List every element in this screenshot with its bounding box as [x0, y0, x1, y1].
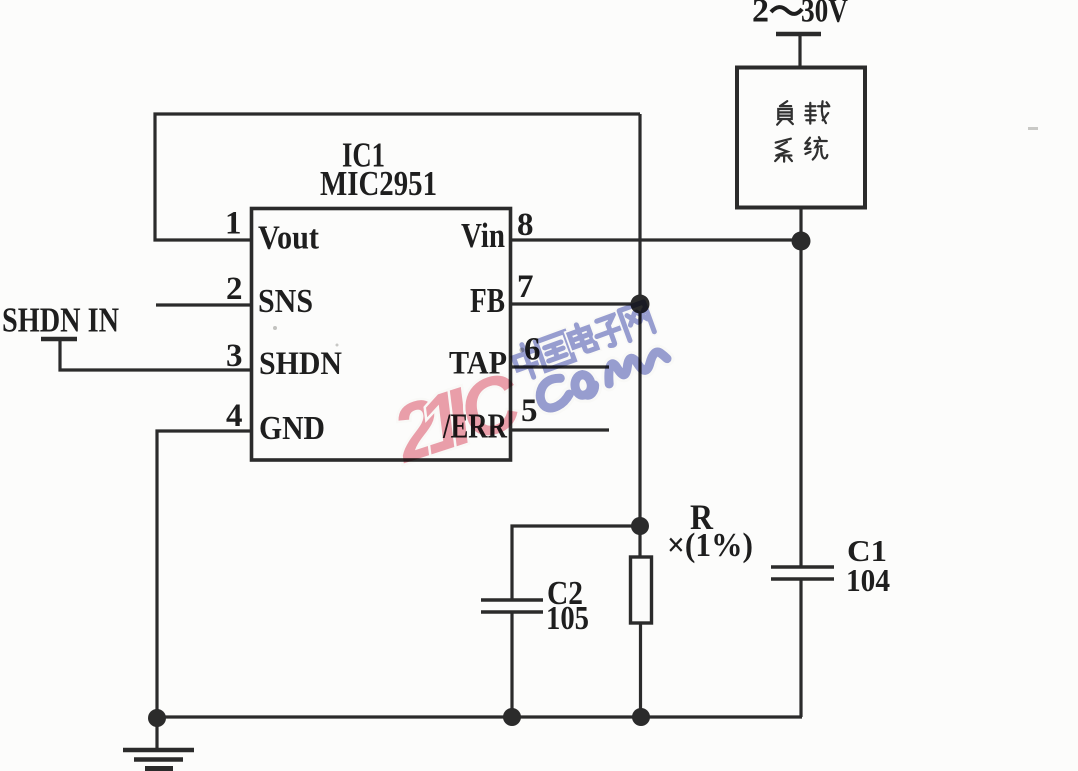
terminal T bar for SHDN IN — [41, 337, 77, 342]
IC1 body MIC2951 — [252, 209, 511, 461]
svg-text:Vout: Vout — [258, 220, 320, 257]
capacitor C2 plates — [481, 600, 543, 612]
stray scan speck 3 — [520, 348, 525, 353]
wire: GND pin4 down left rail — [157, 431, 252, 717]
watermark chinese 中国电子网 blue — [510, 301, 655, 382]
svg-text:GND: GND — [259, 410, 325, 447]
stray scan speck — [1028, 127, 1038, 130]
svg-text:2: 2 — [752, 0, 769, 30]
svg-text:Vin: Vin — [461, 216, 505, 255]
watermark com blue script — [535, 340, 669, 411]
svg-text:30V: 30V — [801, 0, 848, 30]
svg-text:1: 1 — [225, 206, 242, 242]
wire: feedback vertical column lower part below resistor — [639, 623, 642, 717]
wire: FB pin7 to feedback column — [511, 302, 640, 305]
wire: feedback vertical column upper part — [638, 114, 641, 557]
svg-text:3: 3 — [226, 338, 243, 374]
watermark 21IC pink — [381, 355, 532, 480]
svg-text:4: 4 — [226, 398, 243, 434]
svg-text:105: 105 — [546, 600, 589, 637]
stray scan speck 2 — [273, 326, 277, 330]
wire: Vin pin8 to supply column — [511, 238, 801, 241]
watermark char 网 — [619, 302, 654, 341]
terminal bar for 2~30V supply — [776, 32, 821, 37]
junction node at C2 branch / R top — [631, 517, 649, 535]
char 系 — [775, 139, 792, 162]
load box label 负载 (hand drawn glyphs) — [775, 101, 829, 162]
ground symbol — [123, 717, 194, 769]
char 负 — [777, 101, 793, 125]
wire: right column below C1 to bottom rail — [799, 579, 802, 717]
wires and components — [60, 34, 802, 717]
wire: /ERR pin5 stub — [511, 428, 609, 431]
junction node left rail / ground symbol — [148, 709, 166, 727]
watermark char 国 — [536, 332, 575, 371]
char 统 — [805, 137, 827, 159]
junction node at Vin / load box — [792, 232, 811, 251]
svg-text:SHDN: SHDN — [259, 346, 342, 382]
wire: TAP pin6 stub — [511, 365, 609, 368]
svg-text:FB: FB — [470, 281, 505, 320]
wire: Vout pin1 to left rail up and across top to feedback column — [155, 114, 640, 240]
stray scan speck 4 — [336, 344, 339, 347]
svg-text:SNS: SNS — [258, 283, 313, 320]
junction node C2 bottom on ground rail — [503, 708, 521, 726]
wire: load box bottom to Vin junction and down right column — [799, 207, 802, 567]
wire: SNS pin2 stub — [156, 303, 252, 306]
wire: bottom ground rail — [156, 715, 802, 718]
watermark layer (multiply blend, knockout halos) — [381, 301, 670, 480]
svg-text:SHDN IN: SHDN IN — [2, 301, 119, 340]
svg-text:×(1%): ×(1%) — [667, 527, 753, 564]
watermark char 电 — [567, 321, 597, 355]
junction node R bottom on ground rail — [632, 708, 650, 726]
svg-text:MIC2951: MIC2951 — [320, 164, 437, 203]
tilde of 2~30V — [771, 7, 802, 14]
wire: C2 bottom lead — [510, 612, 513, 717]
wire: SHDN input from T bar to pin3 — [60, 338, 252, 370]
wire: supply 2~30V terminal into load box — [798, 34, 801, 67]
svg-text:104: 104 — [846, 562, 890, 598]
svg-text:7: 7 — [517, 269, 534, 305]
junction node at FB / feedback column — [631, 295, 650, 314]
svg-text:2: 2 — [226, 271, 243, 307]
resistor R body — [631, 557, 652, 623]
watermark char 中 — [510, 341, 545, 382]
watermark char 子 — [592, 314, 627, 350]
svg-text:8: 8 — [517, 207, 534, 243]
wire: C2 branch from feedback column — [512, 526, 640, 600]
char 载 — [805, 101, 829, 123]
capacitor C1 plates — [771, 567, 834, 579]
load box 负载系统 — [737, 68, 865, 208]
